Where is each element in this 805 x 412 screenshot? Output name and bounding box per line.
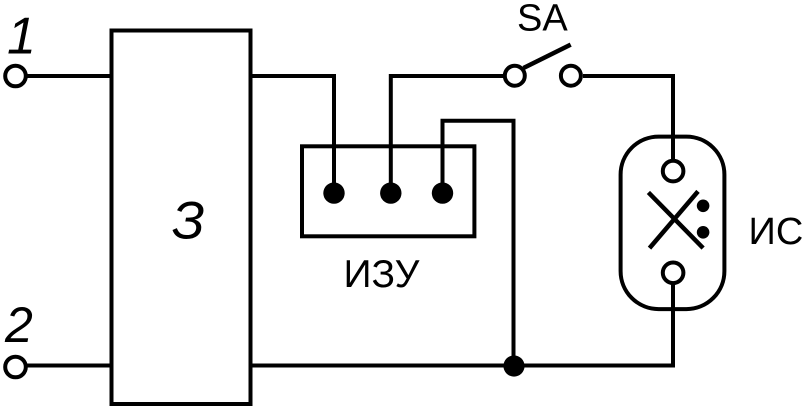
wire: ballast output to IZU pin 1 — [251, 76, 335, 193]
svg-text:З: З — [172, 192, 205, 251]
svg-text:1: 1 — [7, 8, 36, 66]
IZU pin 1 — [323, 182, 344, 203]
wire: IZU pin 3 up, right and down to bottom junction — [443, 121, 514, 366]
svg-text:ИЗУ: ИЗУ — [344, 253, 420, 296]
wire: IZU pin 2 up and to switch SA left terminal — [391, 76, 503, 193]
lamp cross stroke 1 — [648, 192, 703, 248]
lamp top electrode — [663, 161, 684, 182]
wire: terminal 2 to ballast — [25, 364, 112, 368]
lamp dot lower — [697, 226, 710, 239]
switch SA right contact — [561, 66, 581, 86]
terminal 1 — [5, 66, 26, 87]
lamp cross stroke 2 — [650, 191, 699, 248]
wire: bottom rail from ballast to lamp riser — [251, 285, 674, 366]
svg-text:2: 2 — [4, 297, 33, 353]
lamp wire stub bottom — [671, 283, 675, 310]
lamp dot upper — [697, 200, 710, 213]
switch SA left contact — [505, 66, 525, 86]
lamp wire stub top — [671, 136, 675, 162]
lamp IS outline — [621, 137, 725, 310]
ballast box Z — [112, 31, 251, 405]
IZU pin 3 — [432, 182, 453, 203]
IZU box — [302, 146, 474, 236]
wire: switch SA right terminal to lamp top — [583, 76, 673, 160]
junction: bottom rail node — [503, 355, 524, 376]
wire: terminal 1 to ballast — [25, 74, 112, 78]
terminal 2 — [5, 357, 26, 378]
lamp bottom electrode — [663, 263, 684, 284]
svg-text:ИС: ИС — [749, 211, 804, 253]
IZU pin 2 — [380, 182, 401, 203]
svg-text:SA: SA — [517, 0, 568, 40]
switch SA lever — [524, 45, 571, 68]
